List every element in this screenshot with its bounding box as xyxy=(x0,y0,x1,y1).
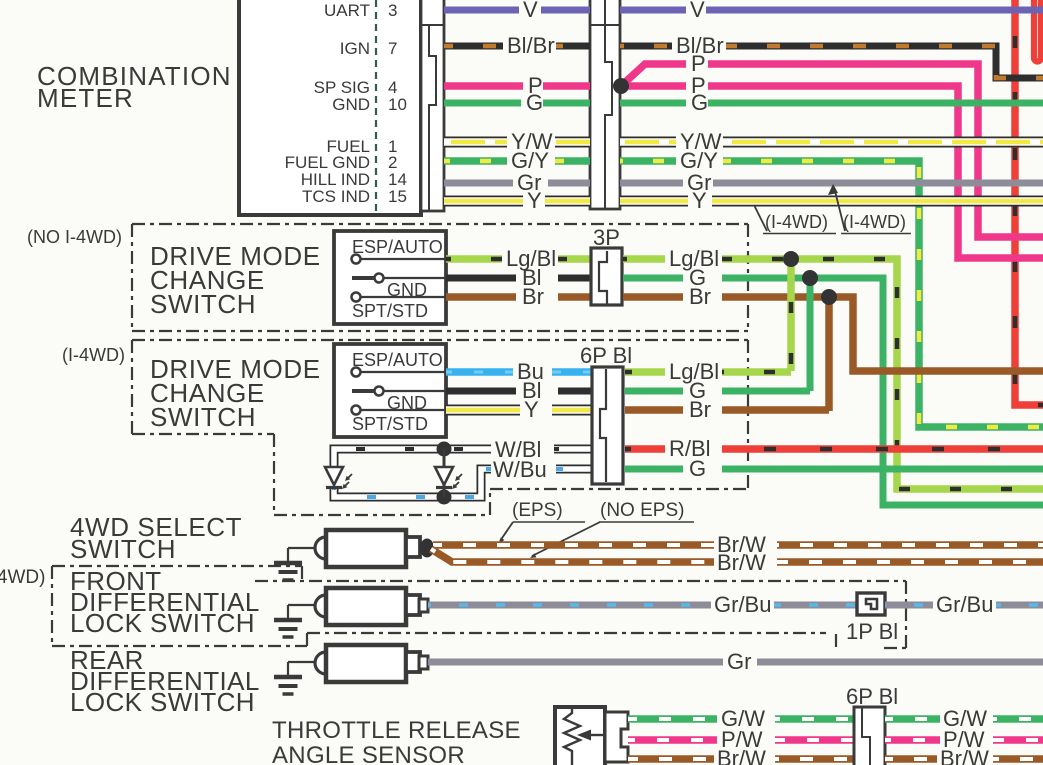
svg-text:Br/W: Br/W xyxy=(717,550,766,575)
svg-text:SPT/STD: SPT/STD xyxy=(352,301,428,321)
svg-text:LOCK SWITCH: LOCK SWITCH xyxy=(70,687,255,717)
svg-text:SPT/STD: SPT/STD xyxy=(352,414,428,434)
svg-text:METER: METER xyxy=(37,83,134,113)
svg-text:6P Bl: 6P Bl xyxy=(846,684,898,709)
svg-text:Y: Y xyxy=(524,397,539,422)
svg-text:V: V xyxy=(523,0,538,22)
svg-text:3: 3 xyxy=(388,1,397,20)
svg-text:10: 10 xyxy=(388,95,407,114)
svg-text:(NO I-4WD): (NO I-4WD) xyxy=(27,227,122,247)
svg-text:P: P xyxy=(691,51,706,76)
svg-text:SWITCH: SWITCH xyxy=(70,534,176,564)
svg-text:(I-4WD): (I-4WD) xyxy=(0,567,45,588)
svg-text:ESP/AUTO: ESP/AUTO xyxy=(352,350,443,370)
svg-text:Br/W: Br/W xyxy=(717,746,766,765)
svg-text:ANGLE SENSOR: ANGLE SENSOR xyxy=(272,742,465,765)
svg-text:Gr/Bu: Gr/Bu xyxy=(714,592,771,617)
svg-text:GND: GND xyxy=(332,95,370,114)
svg-text:Br: Br xyxy=(689,397,711,422)
svg-text:IGN: IGN xyxy=(340,39,370,58)
svg-text:Br: Br xyxy=(689,284,711,309)
svg-text:UART: UART xyxy=(324,1,370,20)
svg-text:Bl/Br: Bl/Br xyxy=(507,33,555,58)
svg-text:SWITCH: SWITCH xyxy=(150,289,256,319)
svg-text:(EPS): (EPS) xyxy=(512,500,563,521)
svg-text:G: G xyxy=(689,456,706,481)
svg-text:W/Bu: W/Bu xyxy=(493,457,547,482)
svg-text:15: 15 xyxy=(388,187,407,206)
svg-text:Br/W: Br/W xyxy=(940,746,989,765)
svg-text:1P Bl: 1P Bl xyxy=(846,619,898,644)
svg-text:Br: Br xyxy=(522,284,544,309)
svg-text:6P Bl: 6P Bl xyxy=(580,343,632,368)
svg-text:Gr/Bu: Gr/Bu xyxy=(936,592,993,617)
svg-text:(NO EPS): (NO EPS) xyxy=(600,500,684,521)
svg-text:G: G xyxy=(526,90,543,115)
svg-text:G: G xyxy=(691,90,708,115)
svg-text:(I-4WD): (I-4WD) xyxy=(765,212,828,232)
svg-text:SWITCH: SWITCH xyxy=(150,402,256,432)
svg-text:V: V xyxy=(690,0,705,22)
svg-text:3P: 3P xyxy=(593,225,620,250)
svg-text:Y: Y xyxy=(527,188,542,213)
svg-text:7: 7 xyxy=(388,39,397,58)
svg-text:Gr: Gr xyxy=(727,649,751,674)
svg-text:(I-4WD): (I-4WD) xyxy=(843,212,906,232)
svg-text:Y: Y xyxy=(692,188,707,213)
svg-text:ESP/AUTO: ESP/AUTO xyxy=(352,237,443,257)
svg-text:THROTTLE RELEASE: THROTTLE RELEASE xyxy=(272,717,521,744)
svg-text:(I-4WD): (I-4WD) xyxy=(62,345,125,365)
svg-text:TCS IND: TCS IND xyxy=(302,187,370,206)
svg-text:LOCK SWITCH: LOCK SWITCH xyxy=(70,608,255,638)
